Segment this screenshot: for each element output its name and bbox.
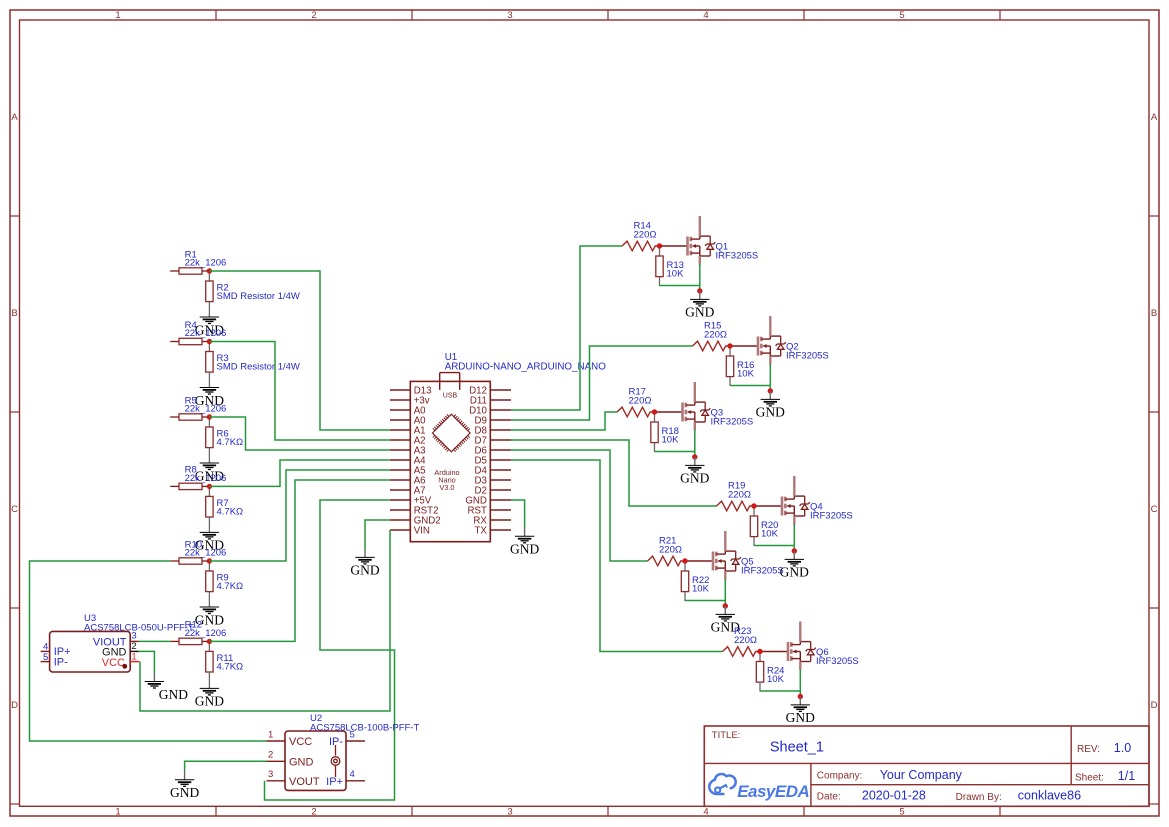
resistor R9 4.7K bbox=[206, 562, 213, 607]
wire R12 junction to A6 bbox=[209, 480, 390, 641]
junction node R1/R2 bbox=[207, 268, 212, 273]
pin D9 U1 right bbox=[475, 416, 511, 427]
svg-text:A: A bbox=[1151, 112, 1158, 123]
ground under Q2 bbox=[756, 399, 785, 419]
resistor R22 10K bbox=[681, 562, 688, 601]
mcu U1 ARDUINO-NANO bbox=[410, 373, 490, 542]
svg-text:4.7KΩ: 4.7KΩ bbox=[217, 661, 244, 672]
svg-text:220Ω: 220Ω bbox=[629, 396, 652, 407]
svg-text:2: 2 bbox=[311, 10, 316, 21]
junction node gate Q4 bbox=[751, 503, 756, 508]
svg-text:2020-01-28: 2020-01-28 bbox=[862, 789, 926, 803]
pin D10 U1 right bbox=[469, 406, 511, 417]
wire GND2 to ground bbox=[365, 520, 390, 550]
svg-text:TX: TX bbox=[475, 526, 488, 537]
svg-text:3: 3 bbox=[268, 769, 273, 780]
pin +5V U1 left bbox=[390, 496, 432, 507]
pin A0 U1 left bbox=[390, 416, 426, 427]
svg-text:GND: GND bbox=[756, 405, 785, 420]
svg-text:10K: 10K bbox=[761, 529, 779, 540]
svg-text:IRF3205S: IRF3205S bbox=[711, 417, 754, 428]
pin A5 U1 left bbox=[390, 466, 426, 477]
svg-text:22k_1206: 22k_1206 bbox=[185, 328, 227, 339]
pin 4 IP+ U3 bbox=[41, 642, 50, 653]
svg-text:5: 5 bbox=[350, 729, 355, 740]
svg-text:GND: GND bbox=[786, 710, 815, 725]
wire U1 pin row 440 to R19 bbox=[511, 440, 717, 506]
pin D8 U1 right bbox=[475, 426, 511, 437]
svg-text:IRF3205S: IRF3205S bbox=[741, 566, 784, 577]
ground at U1 GND bbox=[510, 536, 539, 556]
svg-text:ACS758LCB-050U-PFF-T: ACS758LCB-050U-PFF-T bbox=[84, 622, 194, 633]
resistor R11 4.7K bbox=[206, 642, 213, 688]
svg-text:4: 4 bbox=[350, 769, 355, 780]
pin 2 GND U3 bbox=[130, 641, 139, 652]
junction node gate Q3 bbox=[652, 409, 657, 414]
wire U1 pin row 460 to R23 bbox=[511, 460, 723, 652]
resistor R6 4.7K bbox=[206, 418, 213, 463]
svg-text:GND: GND bbox=[195, 694, 224, 709]
resistor R8 22k_1206 bbox=[170, 483, 209, 489]
resistor R14 220 bbox=[622, 241, 660, 251]
svg-text:VCC: VCC bbox=[102, 657, 125, 669]
svg-text:1: 1 bbox=[115, 10, 120, 21]
svg-text:10K: 10K bbox=[692, 584, 710, 595]
pin 1 VCC U3 bbox=[122, 652, 139, 669]
ground under Q5 bbox=[711, 614, 740, 634]
svg-text:4: 4 bbox=[703, 807, 708, 818]
ground under Q4 bbox=[780, 559, 809, 579]
pin 2 GND U2 bbox=[267, 750, 286, 762]
svg-text:Your Company: Your Company bbox=[880, 768, 963, 782]
ground at GND2 bbox=[350, 557, 379, 577]
svg-text:ACS758LCB-100B-PFF-T: ACS758LCB-100B-PFF-T bbox=[310, 722, 419, 733]
transistor Q2 IRF3205S bbox=[730, 316, 786, 365]
svg-text:GND: GND bbox=[685, 305, 714, 320]
svg-text:5: 5 bbox=[899, 10, 904, 21]
wire R24 to Q6 source bbox=[760, 690, 800, 692]
svg-text:10K: 10K bbox=[667, 269, 685, 280]
transistor Q3 IRF3205S bbox=[655, 382, 711, 431]
pin 5 IP- U2 bbox=[346, 729, 365, 741]
pin GND2 U1 left bbox=[390, 516, 441, 527]
junction node source Q2 bbox=[768, 388, 773, 393]
svg-text:22k_1206: 22k_1206 bbox=[185, 258, 227, 269]
svg-text:2: 2 bbox=[131, 641, 136, 652]
svg-text:GND: GND bbox=[289, 756, 314, 768]
pin D13 U1 left bbox=[390, 386, 431, 397]
transistor Q5 IRF3205S bbox=[685, 531, 741, 580]
pin 4 IP+ U2 bbox=[346, 769, 365, 781]
svg-text:22k_1206: 22k_1206 bbox=[185, 473, 227, 484]
wire VIN to U3 VCC bbox=[140, 530, 390, 711]
svg-text:VIN: VIN bbox=[414, 526, 430, 537]
svg-text:GND: GND bbox=[680, 471, 709, 486]
resistor R13 10K bbox=[656, 247, 663, 286]
wire Q3 source to ground bbox=[694, 430, 696, 457]
wire Q4 source to ground bbox=[793, 524, 795, 551]
junction node source Q4 bbox=[792, 548, 797, 553]
svg-text:IRF3205S: IRF3205S bbox=[786, 351, 829, 362]
wire R4 junction to A2 bbox=[209, 342, 390, 441]
pin 5 IP- U3 bbox=[41, 652, 50, 663]
wire R10 junction to A5 bbox=[209, 470, 390, 561]
svg-text:4: 4 bbox=[703, 10, 708, 21]
junction node R10/R9 bbox=[207, 558, 212, 563]
ground under Q6 bbox=[786, 705, 815, 725]
logo EasyEDA bbox=[709, 774, 809, 801]
pin RST2 U1 left bbox=[390, 506, 438, 517]
svg-text:IRF3205S: IRF3205S bbox=[716, 251, 759, 262]
svg-text:Sheet:: Sheet: bbox=[1075, 773, 1104, 784]
svg-text:1: 1 bbox=[268, 729, 273, 740]
wire U1 pin row 410 to R14 bbox=[511, 246, 622, 410]
pin D2 U1 right bbox=[475, 486, 511, 497]
svg-text:220Ω: 220Ω bbox=[634, 230, 657, 241]
resistor R10 22k_1206 bbox=[170, 558, 209, 564]
svg-text:1: 1 bbox=[131, 652, 136, 663]
pin A0 U1 left bbox=[390, 406, 426, 417]
resistor R20 10K bbox=[750, 507, 757, 546]
pin A7 U1 left bbox=[390, 486, 426, 497]
svg-text:220Ω: 220Ω bbox=[704, 330, 727, 341]
ground under R9 bbox=[195, 607, 224, 627]
svg-text:10K: 10K bbox=[737, 369, 755, 380]
junction node R4/R3 bbox=[207, 339, 212, 344]
wire U1 pin row 430 to R17 bbox=[511, 412, 617, 430]
svg-text:TITLE:: TITLE: bbox=[712, 730, 741, 741]
svg-text:GND: GND bbox=[350, 563, 379, 578]
wire R5 junction to A3 bbox=[209, 417, 390, 450]
pin RST U1 right bbox=[468, 506, 511, 517]
svg-text:V3.0: V3.0 bbox=[439, 483, 454, 492]
wire U3 GND pin to ground bbox=[139, 651, 155, 673]
svg-text:1: 1 bbox=[115, 807, 120, 818]
pin 3 VIOUT U3 bbox=[130, 631, 139, 642]
ground under R7 bbox=[195, 532, 224, 552]
resistor R5 22k_1206 bbox=[170, 414, 209, 420]
junction node source Q5 bbox=[723, 603, 728, 608]
svg-text:IP-: IP- bbox=[54, 656, 68, 668]
svg-text:C: C bbox=[11, 504, 18, 515]
svg-text:1.0: 1.0 bbox=[1114, 741, 1131, 755]
wire Q5 source to ground bbox=[724, 579, 726, 606]
svg-text:10K: 10K bbox=[767, 674, 785, 685]
junction node R8/R7 bbox=[207, 484, 212, 489]
svg-text:220Ω: 220Ω bbox=[728, 490, 751, 501]
svg-text:3: 3 bbox=[507, 807, 512, 818]
pin D3 U1 right bbox=[475, 476, 511, 487]
pin RX U1 right bbox=[473, 516, 511, 527]
svg-text:4.7KΩ: 4.7KΩ bbox=[217, 506, 244, 517]
pin D5 U1 right bbox=[475, 456, 511, 467]
svg-text:IRF3205S: IRF3205S bbox=[816, 656, 859, 667]
transistor Q4 IRF3205S bbox=[754, 476, 810, 525]
wire U1 pin row 420 to R15 bbox=[511, 346, 693, 420]
junction node source Q3 bbox=[692, 454, 697, 459]
junction node gate Q5 bbox=[682, 558, 687, 563]
svg-text:Company:: Company: bbox=[817, 771, 863, 782]
svg-text:220Ω: 220Ω bbox=[734, 635, 757, 646]
svg-text:USB: USB bbox=[443, 393, 458, 400]
resistor R4 22k_1206 bbox=[170, 338, 209, 344]
wire R20 to Q4 source bbox=[754, 545, 794, 547]
svg-text:220Ω: 220Ω bbox=[659, 545, 682, 556]
pin A4 U1 left bbox=[390, 456, 426, 467]
wire Q1 source to ground bbox=[699, 264, 701, 291]
junction node R12/R11 bbox=[207, 639, 212, 644]
svg-text:IP+: IP+ bbox=[326, 776, 343, 788]
wire U1 pin row 450 to R21 bbox=[511, 450, 648, 561]
wire R22 to Q5 source bbox=[685, 600, 725, 602]
sensor U2 ACS758LCB-100B-PFF-T bbox=[285, 731, 346, 790]
svg-text:10K: 10K bbox=[662, 435, 680, 446]
resistor R3 SMD Resistor 1/4W bbox=[206, 343, 213, 388]
svg-text:GND: GND bbox=[510, 542, 539, 557]
ground under Q3 bbox=[680, 465, 709, 485]
wire R13 to Q1 source bbox=[660, 285, 700, 287]
svg-text:REV:: REV: bbox=[1077, 744, 1100, 755]
svg-text:Date:: Date: bbox=[817, 791, 841, 802]
svg-text:B: B bbox=[1151, 308, 1157, 319]
wire Q2 source to ground bbox=[769, 364, 771, 391]
pin D11 U1 right bbox=[470, 396, 511, 407]
svg-text:4.7KΩ: 4.7KΩ bbox=[217, 437, 244, 448]
pin TX U1 right bbox=[475, 526, 511, 537]
junction node gate Q1 bbox=[657, 243, 662, 248]
svg-text:conklave86: conklave86 bbox=[1018, 789, 1081, 803]
resistor R18 10K bbox=[651, 413, 658, 452]
wire R10 left to U2 VCC bbox=[30, 561, 267, 741]
pin GND U1 right bbox=[465, 496, 511, 507]
svg-text:5: 5 bbox=[899, 807, 904, 818]
ground under R2 bbox=[195, 317, 224, 337]
resistor R15 220 bbox=[693, 341, 731, 351]
svg-text:B: B bbox=[11, 308, 17, 319]
svg-text:5: 5 bbox=[43, 652, 48, 663]
svg-text:22k_1206: 22k_1206 bbox=[185, 404, 227, 415]
junction node R5/R6 bbox=[207, 414, 212, 419]
svg-text:SMD Resistor 1/4W: SMD Resistor 1/4W bbox=[217, 362, 300, 373]
junction node source Q6 bbox=[798, 694, 803, 699]
wire R8 junction to A4 bbox=[209, 460, 390, 486]
ground at U2 GND bbox=[170, 780, 199, 800]
svg-text:C: C bbox=[1151, 504, 1158, 515]
resistor R21 220 bbox=[648, 556, 686, 566]
pin A6 U1 left bbox=[390, 476, 426, 487]
svg-text:2: 2 bbox=[268, 750, 273, 761]
ground under R3 bbox=[195, 388, 224, 408]
resistor R23 220 bbox=[723, 647, 761, 657]
junction node gate Q2 bbox=[727, 343, 732, 348]
svg-text:D: D bbox=[11, 700, 18, 711]
resistor R16 10K bbox=[726, 347, 733, 386]
svg-text:22k_1206: 22k_1206 bbox=[185, 548, 227, 559]
wire R18 to Q3 source bbox=[655, 451, 695, 453]
wire U1 GND to ground bbox=[511, 500, 525, 527]
pin 3 VOUT U2 bbox=[267, 769, 286, 781]
pin A3 U1 left bbox=[390, 446, 426, 457]
ground under R6 bbox=[195, 463, 224, 483]
pin D12 U1 right bbox=[469, 386, 511, 397]
resistor R19 220 bbox=[717, 501, 755, 511]
svg-text:3: 3 bbox=[131, 631, 136, 642]
svg-text:VOUT: VOUT bbox=[289, 776, 320, 788]
ground under R11 bbox=[195, 688, 224, 708]
resistor R24 10K bbox=[756, 653, 763, 692]
svg-text:VCC: VCC bbox=[289, 736, 312, 748]
resistor R17 220 bbox=[617, 407, 655, 417]
transistor Q6 IRF3205S bbox=[760, 622, 816, 671]
resistor R12 22k_1206 bbox=[170, 638, 209, 644]
svg-text:SMD Resistor 1/4W: SMD Resistor 1/4W bbox=[217, 291, 300, 302]
svg-text:IRF3205S: IRF3205S bbox=[810, 511, 853, 522]
svg-text:GND: GND bbox=[780, 565, 809, 580]
transistor Q1 IRF3205S bbox=[660, 216, 716, 265]
wire R1 junction to A1 bbox=[209, 271, 390, 430]
svg-text:EasyEDA: EasyEDA bbox=[737, 782, 809, 801]
title block bbox=[704, 726, 1149, 806]
pin A1 U1 left bbox=[390, 426, 426, 437]
svg-text:GND: GND bbox=[159, 687, 188, 702]
wire Q6 source to ground bbox=[799, 670, 801, 697]
junction node gate Q6 bbox=[757, 649, 762, 654]
svg-text:Drawn By:: Drawn By: bbox=[956, 792, 1002, 803]
svg-text:Sheet_1: Sheet_1 bbox=[770, 739, 824, 755]
resistor R2 SMD Resistor 1/4W bbox=[206, 272, 213, 317]
wire R16 to Q2 source bbox=[730, 385, 770, 387]
svg-text:GND: GND bbox=[170, 785, 199, 800]
pin D6 U1 right bbox=[475, 446, 511, 457]
resistor R7 4.7K bbox=[206, 487, 213, 532]
svg-text:2: 2 bbox=[311, 807, 316, 818]
svg-text:3: 3 bbox=[507, 10, 512, 21]
ground under Q1 bbox=[685, 299, 714, 319]
resistor R1 22k_1206 bbox=[170, 268, 209, 274]
junction node source Q1 bbox=[697, 288, 702, 293]
wire U2 GND pin to ground bbox=[185, 761, 267, 770]
svg-text:ARDUINO-NANO_ARDUINO_NANO: ARDUINO-NANO_ARDUINO_NANO bbox=[445, 361, 607, 372]
svg-text:D: D bbox=[1151, 700, 1158, 711]
pin 1 VCC U2 bbox=[267, 729, 286, 741]
sensor U3 ACS758LCB-050U-PFF-T bbox=[50, 631, 131, 672]
svg-text:A: A bbox=[11, 112, 18, 123]
pin +3v U1 left bbox=[390, 396, 430, 407]
svg-text:1/1: 1/1 bbox=[1118, 769, 1135, 783]
wire +5V to U2 VOUT bbox=[265, 500, 395, 800]
ground at U3 GND bbox=[145, 682, 189, 702]
pin VIN U1 left bbox=[390, 526, 430, 537]
pin D4 U1 right bbox=[475, 466, 511, 477]
wire U3 VIOUT to R12 bbox=[139, 640, 170, 642]
svg-text:4.7KΩ: 4.7KΩ bbox=[217, 581, 244, 592]
pin D7 U1 right bbox=[475, 436, 511, 447]
pin A2 U1 left bbox=[390, 436, 426, 447]
